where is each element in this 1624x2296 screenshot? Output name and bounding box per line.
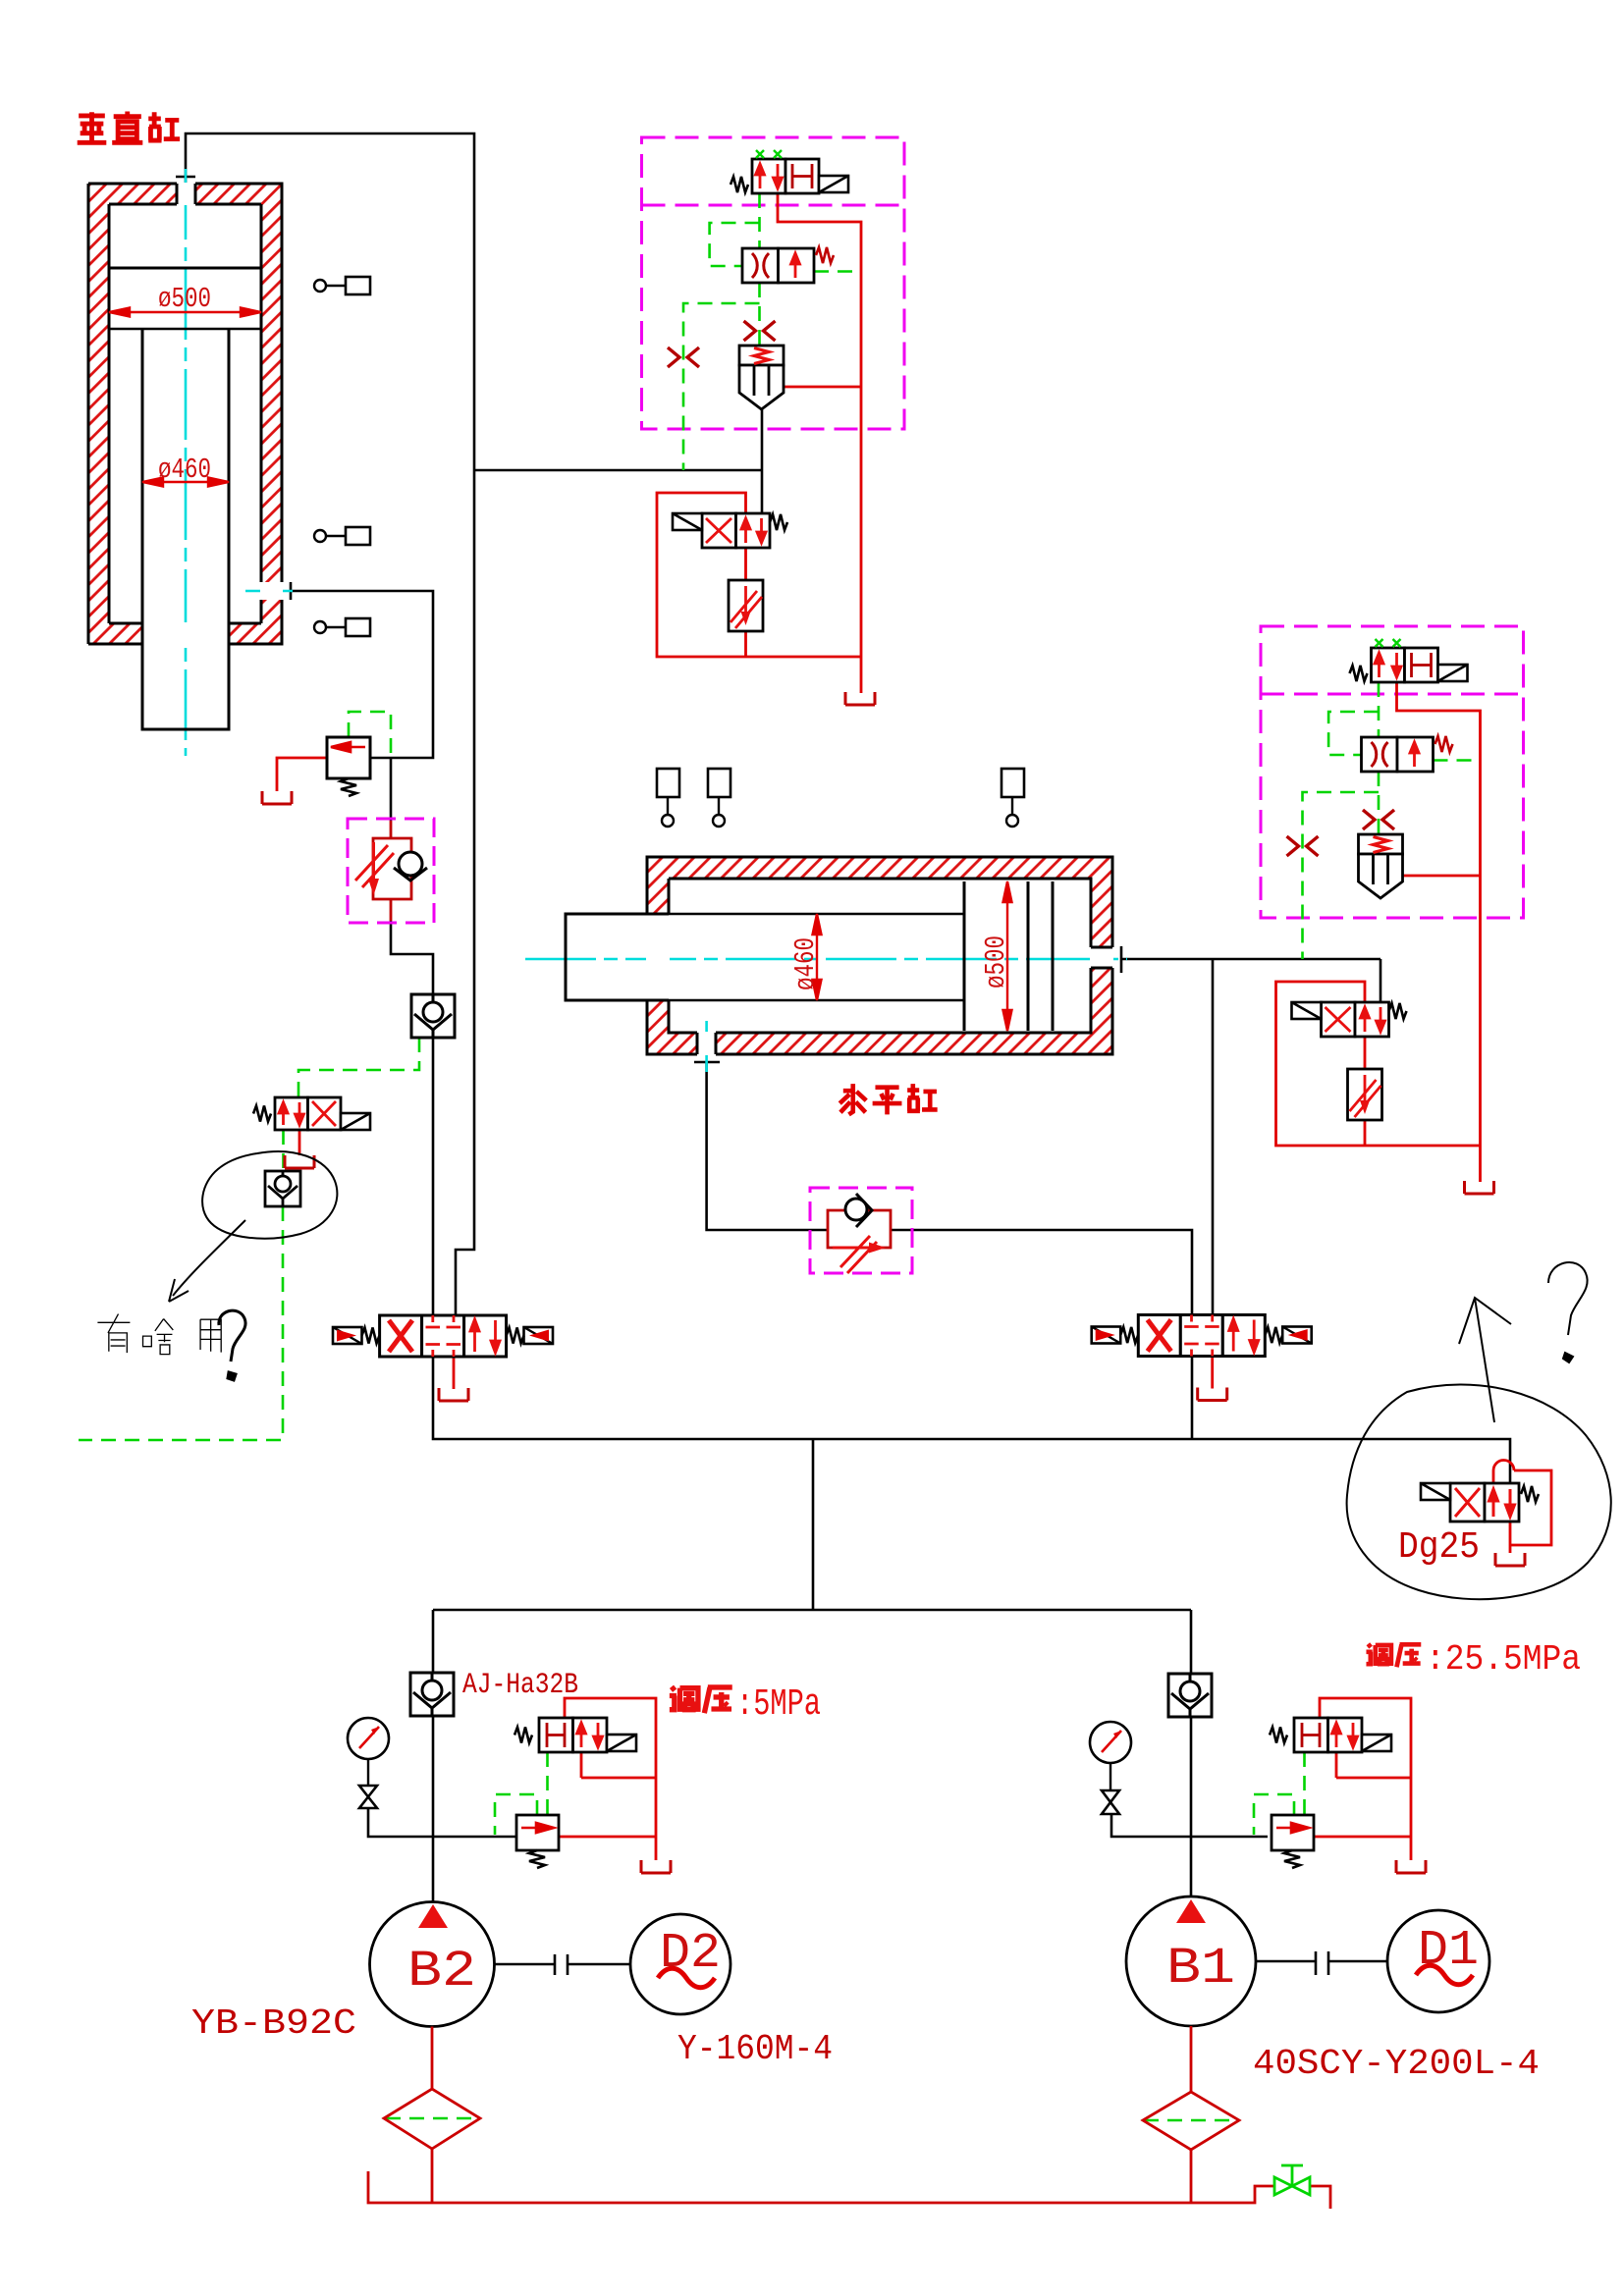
svg-text:YB-B92C: YB-B92C [191, 2003, 356, 2044]
svg-text:ø460: ø460 [789, 937, 822, 990]
svg-text:D2: D2 [660, 1926, 721, 1982]
svg-text:ø460: ø460 [158, 454, 211, 486]
svg-text:40SCY-Y200L-4: 40SCY-Y200L-4 [1253, 2044, 1540, 2084]
svg-text:Dg25: Dg25 [1398, 1526, 1480, 1569]
svg-text:ø500: ø500 [158, 283, 211, 315]
svg-text:B1: B1 [1166, 1940, 1235, 1998]
svg-text::25.5MPa: :25.5MPa [1426, 1639, 1581, 1680]
svg-text:B2: B2 [407, 1943, 476, 2001]
svg-text::5MPa: :5MPa [736, 1683, 821, 1726]
svg-text:Y-160M-4: Y-160M-4 [677, 2029, 833, 2069]
svg-text:ø500: ø500 [980, 935, 1012, 988]
svg-text:AJ-Ha32B: AJ-Ha32B [462, 1669, 578, 1702]
svg-text:D1: D1 [1418, 1923, 1479, 1979]
